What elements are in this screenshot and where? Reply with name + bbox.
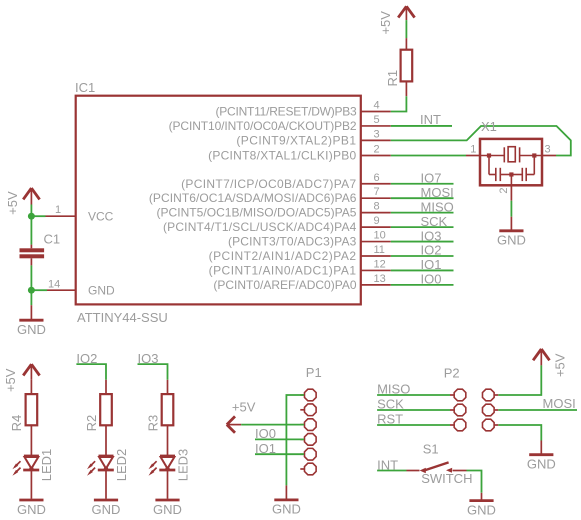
- wire RST to P2: [377, 424, 450, 426]
- ground LED1: [17, 500, 46, 517]
- svg-text:S1: S1: [423, 442, 439, 457]
- IC1 pin 12 PA1: [209, 258, 391, 277]
- svg-text:(PCINT0/AREF/ADC0)PA0: (PCINT0/AREF/ADC0)PA0: [213, 278, 356, 292]
- P2 pin row 2: [450, 409, 454, 411]
- svg-text:IO1: IO1: [421, 257, 442, 272]
- LED LED3: [149, 449, 191, 482]
- wire +5V to R1: [405, 20, 407, 38]
- svg-text:3: 3: [374, 128, 380, 140]
- svg-text:MOSI: MOSI: [421, 185, 454, 200]
- wire LED1 to GND: [30, 470, 32, 499]
- power +5V R1: [378, 6, 415, 34]
- ground left rail: [17, 305, 46, 337]
- wire net IO3: [391, 241, 454, 243]
- svg-text:MOSI: MOSI: [543, 396, 576, 411]
- wire net MISO: [391, 212, 454, 214]
- wire LED2 to GND: [105, 470, 107, 499]
- wire P2 to GND (right col bottom): [498, 425, 541, 441]
- wire P1 pin1 to GND bus: [286, 395, 304, 485]
- IC1 pin 11 PA2: [209, 244, 391, 263]
- svg-text:2: 2: [498, 187, 510, 193]
- svg-text:10: 10: [374, 230, 386, 242]
- wire IO3 to R3: [138, 364, 168, 380]
- wire R4 to LED1: [30, 425, 32, 455]
- wire R2 to LED2: [105, 425, 107, 455]
- wire PB0 to X1 pin1: [391, 155, 466, 157]
- svg-text:(PCINT2/AIN1/ADC2)PA2: (PCINT2/AIN1/ADC2)PA2: [209, 249, 357, 263]
- svg-text:+5V: +5V: [378, 11, 393, 35]
- svg-text:1: 1: [470, 144, 476, 156]
- svg-text:+5V: +5V: [5, 191, 20, 215]
- wire R1 to pin4: [391, 96, 407, 111]
- switch S1 SWITCH: [407, 442, 473, 487]
- capacitor C1: [20, 232, 61, 266]
- svg-text:(PCINT6/OC1A/SDA/MOSI/ADC6)PA6: (PCINT6/OC1A/SDA/MOSI/ADC6)PA6: [149, 191, 357, 205]
- wire R3 to LED3: [167, 425, 169, 455]
- wire net IO2: [391, 255, 454, 257]
- svg-text:IC1: IC1: [75, 80, 95, 95]
- wire net INT pin5: [391, 125, 452, 127]
- IC1 pin 9 PA4: [163, 215, 391, 234]
- connector P2: [444, 366, 499, 431]
- svg-text:6: 6: [374, 172, 380, 184]
- svg-text:LED3: LED3: [175, 449, 190, 482]
- svg-text:2: 2: [374, 144, 380, 156]
- svg-text:GND: GND: [17, 322, 46, 337]
- P1 pin 6: [300, 468, 304, 470]
- wire PB1 to X1 pin3 (top route): [391, 126, 571, 156]
- ground LED2: [92, 500, 121, 517]
- wire LED3 to GND: [167, 470, 169, 499]
- svg-text:GND: GND: [92, 502, 121, 517]
- wire SCK to P2: [377, 409, 450, 411]
- junction pin14 rail: [28, 287, 35, 294]
- svg-text:IO3: IO3: [421, 228, 442, 243]
- svg-text:(PCINT1/AIN0/ADC1)PA1: (PCINT1/AIN0/ADC1)PA1: [209, 263, 357, 277]
- svg-text:IO2: IO2: [421, 243, 442, 258]
- connector P1: [300, 365, 321, 475]
- svg-text:(PCINT8/XTAL1/CLKI)PB0: (PCINT8/XTAL1/CLKI)PB0: [208, 149, 356, 163]
- svg-text:7: 7: [374, 186, 380, 198]
- wire IO2 to R2: [76, 364, 106, 380]
- ground LED3: [153, 500, 182, 517]
- svg-text:IO0: IO0: [421, 272, 442, 287]
- wire net IO0: [391, 284, 454, 286]
- svg-text:12: 12: [374, 258, 386, 270]
- LED LED1: [12, 449, 54, 482]
- svg-text:R1: R1: [385, 70, 400, 87]
- resistor R1: [385, 38, 412, 96]
- svg-text:(PCINT5/OC1B/MISO/DO/ADC5)PA5: (PCINT5/OC1B/MISO/DO/ADC5)PA5: [156, 206, 356, 220]
- wire INT to S1: [377, 470, 406, 472]
- wire junction2 to GND: [30, 290, 32, 305]
- svg-text:R2: R2: [84, 415, 99, 432]
- svg-text:1: 1: [55, 204, 61, 216]
- svg-text:GND: GND: [467, 502, 496, 517]
- svg-text:+5V: +5V: [3, 368, 18, 392]
- wire IO1 to P1 pin5: [255, 453, 304, 455]
- IC1 pin 7 PA6: [149, 186, 391, 205]
- wire +5V to P1 pin3: [241, 424, 304, 426]
- wire net SCK: [391, 226, 454, 228]
- svg-text:INT: INT: [420, 112, 441, 127]
- power +5V top-left: [5, 188, 40, 215]
- ground P2: [527, 441, 556, 472]
- wire net IO7: [391, 183, 454, 185]
- IC1 pin 6 PA7: [181, 172, 391, 191]
- ground X1: [497, 217, 526, 248]
- svg-text:GND: GND: [17, 502, 46, 517]
- IC1 pin 4 PB3: [216, 100, 391, 119]
- P1 pin 5: [300, 453, 304, 455]
- P1 pin 4: [300, 438, 304, 440]
- svg-text:IO7: IO7: [421, 170, 442, 185]
- wire C1 to junction2: [30, 265, 32, 290]
- power +5V LED branch: [3, 364, 40, 392]
- wire +5V to P2 pin (right col top): [498, 365, 541, 395]
- P1 pin 3: [300, 424, 304, 426]
- svg-text:(PCINT4/T1/SCL/USCK/ADC4)PA4: (PCINT4/T1/SCL/USCK/ADC4)PA4: [163, 220, 357, 234]
- wire X1 pin2 to GND: [510, 201, 512, 217]
- ground S1: [467, 493, 496, 518]
- svg-text:5: 5: [374, 114, 380, 126]
- svg-text:(PCINT7/ICP/OC0B/ADC7)PA7: (PCINT7/ICP/OC0B/ADC7)PA7: [181, 177, 356, 191]
- P2 pin row 1: [450, 394, 454, 396]
- svg-text:SWITCH: SWITCH: [421, 471, 472, 486]
- svg-text:14: 14: [48, 278, 60, 290]
- svg-text:C1: C1: [44, 232, 61, 247]
- wire net MOSI: [391, 197, 454, 199]
- P1 pin 1: [300, 394, 304, 396]
- svg-text:(PCINT9/XTAL2)PB1: (PCINT9/XTAL2)PB1: [236, 133, 356, 147]
- wire +5V to junction: [30, 205, 32, 217]
- IC1 pin 1 VCC: [46, 204, 76, 216]
- ground P1: [272, 485, 301, 516]
- svg-text:GND: GND: [272, 502, 301, 517]
- resistor R2: [84, 394, 112, 431]
- wire net IO1: [391, 269, 454, 271]
- svg-text:GND: GND: [527, 457, 556, 472]
- IC U1: ATTINY44-SSU IC1: [75, 80, 361, 325]
- svg-text:P1: P1: [306, 365, 322, 380]
- svg-text:+5V: +5V: [552, 353, 567, 377]
- IC1 pin 2 PB0: [208, 144, 391, 163]
- svg-text:GND: GND: [497, 233, 526, 248]
- svg-text:LED1: LED1: [39, 449, 54, 482]
- svg-text:(PCINT11/RESET/DW)PB3: (PCINT11/RESET/DW)PB3: [216, 105, 358, 119]
- IC1 pin 8 PA5: [156, 201, 390, 220]
- svg-text:4: 4: [374, 100, 380, 112]
- IC1 pin 3 PB1: [236, 128, 390, 147]
- P2 pin row 3: [450, 424, 454, 426]
- resistor R3: [145, 394, 173, 431]
- LED LED2: [87, 449, 129, 482]
- wire +5V to R4: [30, 380, 32, 394]
- svg-text:P2: P2: [444, 366, 460, 381]
- IC1 pin 13 PA0: [213, 273, 390, 292]
- IC1 pin 14 GND: [47, 278, 76, 290]
- svg-text:(PCINT10/INT0/OC0A/CKOUT)PB2: (PCINT10/INT0/OC0A/CKOUT)PB2: [169, 119, 357, 133]
- svg-text:MISO: MISO: [421, 199, 454, 214]
- svg-text:SCK: SCK: [421, 214, 448, 229]
- IC1 pin 5 PB2: [169, 114, 391, 133]
- junction pin1 rail: [28, 213, 35, 220]
- svg-text:8: 8: [374, 201, 380, 213]
- wire MOSI from P2: [498, 409, 577, 411]
- svg-text:13: 13: [374, 273, 386, 285]
- svg-text:R3: R3: [145, 415, 160, 432]
- wire IO0 to P1 pin4: [255, 438, 304, 440]
- IC1 pin 10 PA3: [228, 230, 391, 249]
- P1 pin 2: [300, 409, 304, 411]
- svg-text:11: 11: [374, 244, 385, 256]
- power +5V P2: [533, 349, 567, 377]
- wire junction to pin1: [31, 215, 45, 217]
- svg-text:R4: R4: [9, 415, 24, 432]
- svg-text:LED2: LED2: [114, 449, 129, 482]
- svg-text:+5V: +5V: [232, 399, 256, 414]
- resonator X1: [466, 119, 556, 201]
- wire junction to C1: [30, 216, 32, 244]
- svg-text:VCC: VCC: [88, 210, 114, 224]
- power +5V P1 (left arrow): [227, 399, 256, 433]
- svg-text:X1: X1: [481, 119, 497, 134]
- resistor R4: [9, 394, 37, 431]
- svg-text:GND: GND: [153, 502, 182, 517]
- svg-text:(PCINT3/T0/ADC3)PA3: (PCINT3/T0/ADC3)PA3: [228, 235, 357, 249]
- svg-text:ATTINY44-SSU: ATTINY44-SSU: [77, 310, 168, 325]
- wire junction2 to pin14: [31, 289, 47, 291]
- svg-text:GND: GND: [88, 284, 115, 298]
- svg-text:9: 9: [374, 215, 380, 227]
- svg-text:3: 3: [545, 144, 551, 156]
- wire S1 to GND: [467, 471, 482, 493]
- wire MISO to P2: [377, 394, 450, 396]
